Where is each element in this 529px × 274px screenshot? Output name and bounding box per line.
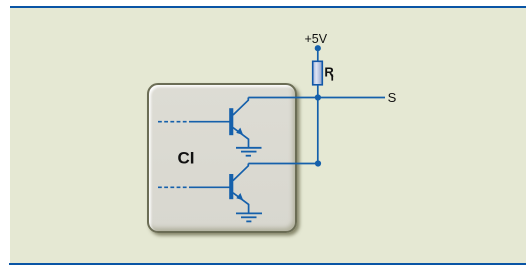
ground (Q2 emitter) (236, 213, 262, 221)
wire Q2 collector to node B (248, 163, 318, 165)
IC U1 (CI) package outline (147, 83, 297, 233)
wire resistor to node B (317, 85, 319, 164)
transistor Q1 (229, 98, 248, 148)
transistor Q1 base wire (dashed input) (158, 121, 230, 123)
ground (Q1 emitter) (236, 148, 262, 156)
wire Q1 collector to S (248, 97, 385, 99)
transistor Q2 base wire (dashed input) (158, 186, 230, 188)
wire +5V to resistor (317, 48, 319, 61)
node A junction dot (315, 94, 321, 100)
label R1 (324, 65, 334, 81)
resistor R1 (313, 61, 323, 85)
svg-text:CI: CI (178, 149, 195, 168)
svg-text:+5V: +5V (305, 32, 328, 46)
node B junction dot (315, 160, 321, 166)
+5V terminal dot (315, 45, 321, 51)
svg-text:S: S (388, 90, 397, 105)
transistor Q2 (229, 164, 248, 214)
